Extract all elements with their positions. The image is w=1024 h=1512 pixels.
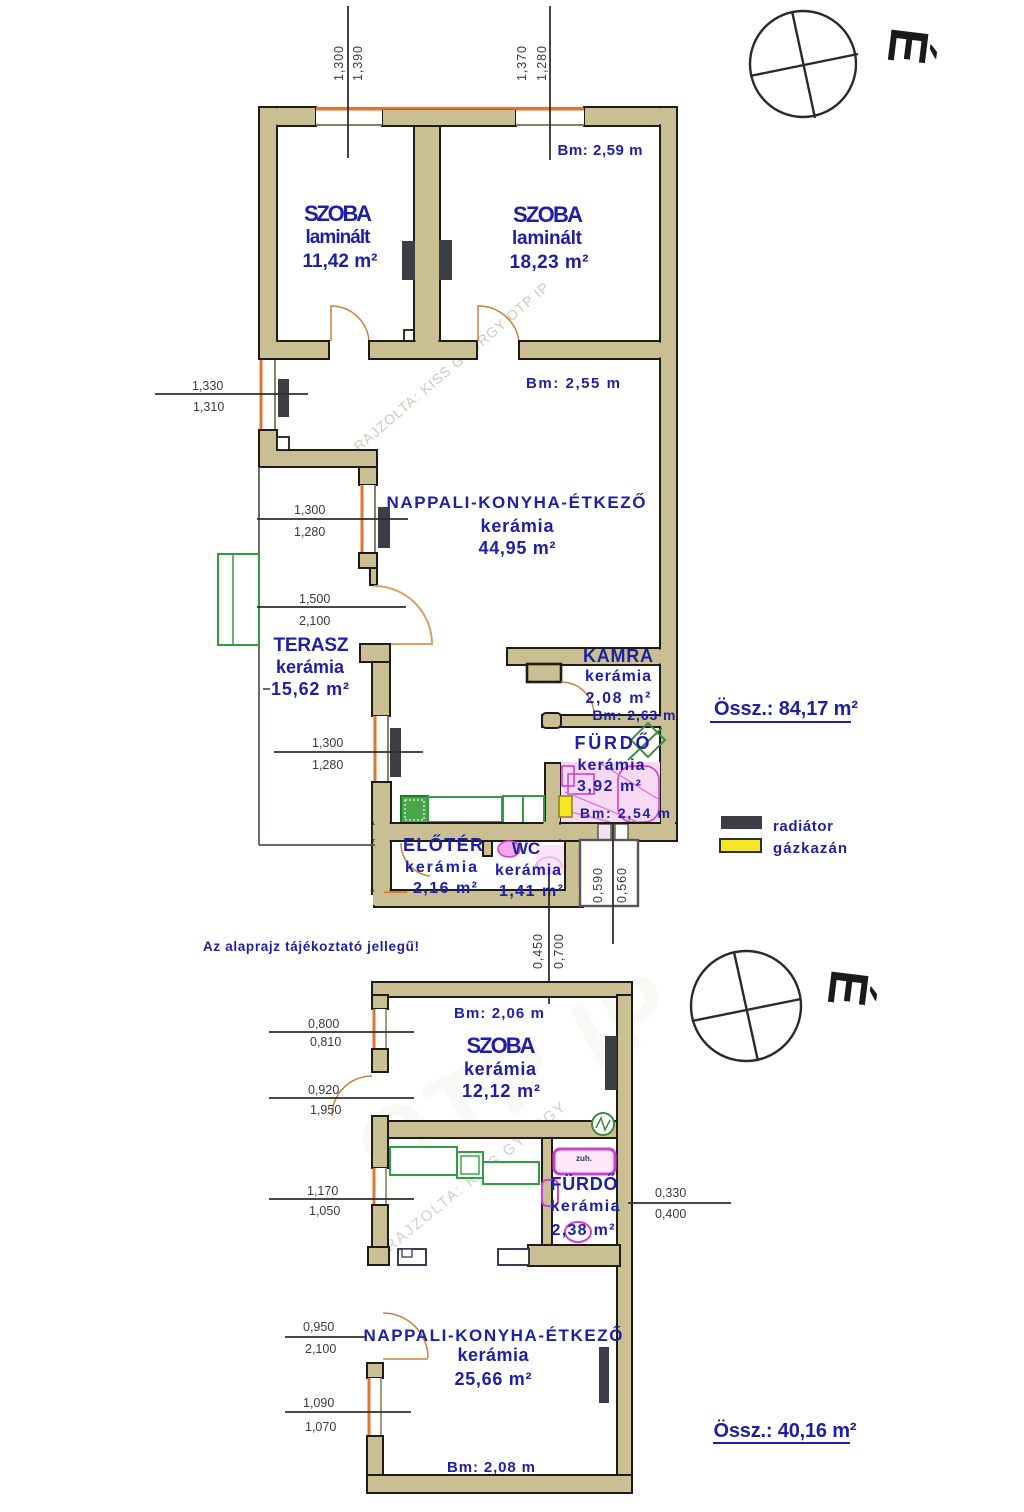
svg-text:WC: WC bbox=[512, 839, 540, 858]
wall vertical west of ELOTER lower bbox=[372, 782, 391, 894]
wall block below window W4 bbox=[359, 553, 377, 568]
svg-text:zuh.: zuh. bbox=[576, 1154, 592, 1163]
window W3 left wall bbox=[260, 358, 276, 430]
wall block left 3 bbox=[367, 1363, 383, 1378]
step notch detail bbox=[277, 437, 289, 450]
svg-text:0,330: 0,330 bbox=[655, 1186, 686, 1200]
wall divider SZOBA/kitchen bottom plan bbox=[388, 1121, 619, 1138]
svg-text:kerámia: kerámia bbox=[276, 657, 345, 677]
svg-text:11,42 m²: 11,42 m² bbox=[303, 251, 378, 272]
door jamb block bottom plan bbox=[368, 1247, 389, 1265]
door D7 arc into NAPPALI bbox=[383, 1313, 428, 1359]
compass bottom circle bbox=[691, 951, 801, 1061]
wall bottom-plan left upper block bbox=[372, 995, 388, 1009]
wall FURDO2 west bbox=[542, 1138, 552, 1266]
svg-text:1,300: 1,300 bbox=[312, 736, 343, 750]
kitchen counter long bbox=[428, 797, 502, 822]
radiator R2 right of middle wall bbox=[439, 240, 452, 280]
wall horizontal below SZOBA rooms segment C bbox=[519, 341, 660, 359]
svg-text:12,12 m²: 12,12 m² bbox=[462, 1081, 540, 1101]
wall WC east bbox=[565, 841, 580, 907]
radiator R5 bottom plan upper bbox=[605, 1036, 617, 1090]
dim hline 0330/0400 bbox=[628, 1202, 731, 1204]
radiator R6 bottom plan lower bbox=[599, 1347, 609, 1403]
svg-text:3,92 m²: 3,92 m² bbox=[577, 778, 641, 795]
svg-text:laminált: laminált bbox=[512, 228, 583, 249]
window W2 top wall bbox=[516, 108, 584, 125]
svg-text:Össz.: 40,16 m²: Össz.: 40,16 m² bbox=[714, 1419, 857, 1442]
svg-text:0,590: 0,590 bbox=[591, 868, 605, 903]
wall horizontal below SZOBA rooms segment B bbox=[369, 341, 477, 359]
wall FURDO bottom band bbox=[560, 823, 677, 841]
window W4 west wall of living room bbox=[360, 485, 376, 553]
pink patch WC bbox=[536, 845, 564, 875]
wall bottom-plan right bbox=[617, 995, 632, 1475]
svg-text:SZOBA: SZOBA bbox=[467, 1033, 536, 1058]
ventilation diamond FURDO bbox=[631, 723, 665, 757]
window W8 left wall long bbox=[368, 1378, 382, 1436]
svg-text:1,050: 1,050 bbox=[309, 1204, 340, 1218]
wall WC divider bbox=[483, 841, 492, 856]
svg-text:kerámia: kerámia bbox=[481, 516, 555, 536]
svg-text:1,280: 1,280 bbox=[535, 46, 549, 81]
svg-text:É: É bbox=[816, 967, 880, 1010]
shaft box bbox=[580, 840, 638, 906]
svg-text:kerámia: kerámia bbox=[578, 757, 645, 774]
dim hline 0920/1950 bbox=[269, 1097, 414, 1099]
svg-text:kerámia: kerámia bbox=[495, 862, 561, 879]
svg-text:1,070: 1,070 bbox=[305, 1420, 336, 1434]
svg-text:Össz.: 84,17 m²: Össz.: 84,17 m² bbox=[714, 697, 858, 720]
svg-text:0,800: 0,800 bbox=[308, 1017, 339, 1031]
kitchen sink unit green bbox=[401, 796, 428, 824]
bathtub magenta bbox=[618, 766, 659, 822]
dim vline shaft right bbox=[612, 824, 614, 944]
svg-text:0,950: 0,950 bbox=[303, 1320, 334, 1334]
wall bottom outer of top plan bbox=[374, 890, 583, 907]
wall horizontal below SZOBA rooms segment A bbox=[259, 341, 329, 359]
svg-text:Az alaprajz tájékoztató jelleg: Az alaprajz tájékoztató jellegű! bbox=[203, 939, 419, 954]
radiator R7 at left wall window bbox=[278, 379, 289, 417]
wall block left bbox=[372, 1049, 388, 1072]
dim hline 0800/0810 bbox=[269, 1031, 414, 1033]
wall left outer upper bbox=[259, 107, 277, 358]
svg-text:15,62 m²: 15,62 m² bbox=[271, 679, 349, 699]
shaft gap 1 in FURDO bottom bbox=[598, 824, 611, 841]
radiator R4 west wall lower bbox=[390, 728, 401, 777]
svg-text:Bm: 2,63 m: Bm: 2,63 m bbox=[593, 707, 676, 723]
window W7 left wall bbox=[373, 1168, 387, 1205]
furniture box 2 bbox=[498, 1249, 529, 1265]
svg-text:0,450: 0,450 bbox=[531, 934, 545, 969]
svg-text:1,950: 1,950 bbox=[310, 1103, 341, 1117]
washing machine magenta bbox=[568, 774, 594, 794]
svg-text:SZOBA: SZOBA bbox=[304, 201, 372, 226]
wall top outer middle segment bbox=[382, 109, 516, 126]
svg-text:1,310: 1,310 bbox=[193, 400, 224, 414]
wall FURDO2 bottom bbox=[528, 1245, 620, 1266]
kitchen unit two-door bbox=[503, 796, 544, 824]
terrace steps green rect bbox=[218, 554, 259, 645]
window head orange line across top wall bbox=[316, 107, 584, 110]
svg-text:1,090: 1,090 bbox=[303, 1396, 334, 1410]
dim hline 1500/2100 bbox=[257, 606, 406, 608]
svg-text:gázkazán: gázkazán bbox=[773, 840, 847, 857]
wall notch detail near middle wall bbox=[404, 330, 417, 341]
furniture box 1 bbox=[398, 1249, 426, 1265]
door D8 ELOTER arc bbox=[401, 843, 430, 876]
wall top outer left segment bbox=[259, 107, 316, 126]
svg-text:kerámia: kerámia bbox=[464, 1059, 537, 1079]
door orange mark bottom wall bbox=[384, 891, 407, 893]
svg-text:radiátor: radiátor bbox=[773, 818, 833, 835]
door post entrance bbox=[370, 568, 377, 585]
door D4 KAMRA arc bbox=[561, 682, 594, 714]
svg-text:2,08 m²: 2,08 m² bbox=[586, 690, 651, 707]
svg-text:kerámia: kerámia bbox=[585, 668, 651, 685]
svg-text:TERASZ: TERASZ bbox=[274, 635, 349, 656]
svg-text:FÜRDŐ: FÜRDŐ bbox=[551, 1173, 618, 1194]
dim hline 0950/2100 bbox=[285, 1336, 367, 1338]
svg-text:Bm: 2,06 m: Bm: 2,06 m bbox=[454, 1005, 544, 1022]
svg-text:0,700: 0,700 bbox=[552, 934, 566, 969]
wall block left 2 bbox=[372, 1205, 388, 1247]
wall right outer bbox=[660, 107, 677, 841]
door jamb KAMRA bbox=[527, 664, 561, 682]
svg-text:25,66 m²: 25,66 m² bbox=[455, 1369, 532, 1389]
wall vertical piece below stepped band bbox=[359, 467, 377, 485]
svg-text:2,16 m²: 2,16 m² bbox=[413, 880, 477, 897]
wall left outer lower block bbox=[259, 430, 277, 452]
svg-text:1,41 m²: 1,41 m² bbox=[499, 883, 563, 900]
wall FURDO west bbox=[545, 763, 561, 824]
svg-text:0,400: 0,400 bbox=[655, 1207, 686, 1221]
svg-text:Bm: 2,08 m: Bm: 2,08 m bbox=[447, 1459, 535, 1476]
sliding door piece on divider bbox=[542, 713, 561, 728]
gazkazan yellow boiler bbox=[559, 796, 572, 817]
dim vline window1 bbox=[347, 6, 349, 158]
vent green diagonal bbox=[628, 728, 662, 760]
shaft gap 2 in FURDO bottom bbox=[615, 824, 628, 841]
wall joint patches bbox=[260, 108, 675, 1479]
wall left below door bbox=[372, 1116, 388, 1168]
svg-text:2,100: 2,100 bbox=[305, 1342, 336, 1356]
window W1 top wall bbox=[316, 108, 382, 125]
door D3 entrance arc bbox=[374, 586, 432, 644]
washbasin magenta bottom plan bbox=[542, 1180, 558, 1206]
wc magenta bottom plan bbox=[565, 1222, 591, 1242]
svg-text:2,38 m²: 2,38 m² bbox=[552, 1222, 615, 1239]
wc toilet magenta bbox=[498, 841, 520, 857]
dim hline 1170/1050 bbox=[269, 1198, 414, 1200]
wall stepped band west of living room bbox=[259, 450, 377, 467]
svg-text:44,95 m²: 44,95 m² bbox=[479, 538, 556, 558]
svg-text:Bm: 2,55 m: Bm: 2,55 m bbox=[526, 375, 620, 392]
dim hline 1300/1280 upper bbox=[257, 518, 408, 520]
wall block L below entrance door bbox=[360, 644, 390, 662]
door gap bottom wall bbox=[538, 892, 560, 905]
svg-text:0,560: 0,560 bbox=[615, 868, 629, 903]
washbasin magenta bbox=[562, 766, 574, 786]
svg-text:NAPPALI-KONYHA-ÉTKEZŐ: NAPPALI-KONYHA-ÉTKEZŐ bbox=[364, 1326, 623, 1345]
svg-text:1,390: 1,390 bbox=[351, 46, 365, 81]
bath detail lines magenta bbox=[563, 763, 658, 823]
ventilation circle symbol bbox=[592, 1113, 614, 1135]
dim hline 1090/1070 bbox=[285, 1411, 411, 1413]
wall kitchen bottom band bbox=[374, 823, 560, 841]
radiator R1 left of middle wall bbox=[402, 241, 415, 280]
wall bottom-plan bottom bbox=[367, 1475, 632, 1493]
FURDO pink floor bbox=[561, 762, 660, 823]
door D2 SZOBA2 arc bbox=[478, 306, 519, 341]
svg-text:É: É bbox=[876, 25, 940, 68]
svg-text:0,920: 0,920 bbox=[308, 1083, 339, 1097]
svg-text:1,280: 1,280 bbox=[294, 525, 325, 539]
svg-text:2,100: 2,100 bbox=[299, 614, 330, 628]
compass top circle bbox=[750, 11, 856, 117]
wc basin magenta bbox=[536, 857, 562, 868]
wall divider KAMRA-FURDO bbox=[542, 715, 660, 727]
svg-text:0,810: 0,810 bbox=[310, 1035, 341, 1049]
radiator R3 living room west bbox=[378, 507, 390, 548]
dim hline 1330/1310 bbox=[155, 393, 308, 395]
svg-text:1,330: 1,330 bbox=[192, 379, 223, 393]
svg-text:18,23 m²: 18,23 m² bbox=[510, 252, 589, 273]
svg-text:NAPPALI-KONYHA-ÉTKEZŐ: NAPPALI-KONYHA-ÉTKEZŐ bbox=[387, 493, 646, 512]
svg-text:1,370: 1,370 bbox=[515, 46, 529, 81]
svg-text:1,280: 1,280 bbox=[312, 758, 343, 772]
wall KAMRA top bbox=[507, 648, 660, 665]
svg-text:SZOBA: SZOBA bbox=[513, 202, 583, 227]
dim vline 0450/0700 bbox=[548, 875, 550, 1004]
dim hline 1300/1280 lower bbox=[274, 751, 423, 753]
svg-text:kerámia: kerámia bbox=[458, 1345, 530, 1365]
svg-text:Bm: 2,59 m: Bm: 2,59 m bbox=[558, 142, 643, 159]
kitchen counter bottom plan long bbox=[390, 1147, 457, 1175]
wall vertical west of ELOTER upper bbox=[372, 662, 390, 716]
wall top outer right segment bbox=[584, 107, 677, 126]
svg-text:KAMRA: KAMRA bbox=[583, 646, 653, 666]
shower zuh magenta bbox=[554, 1149, 615, 1174]
legend radiator swatch bbox=[721, 816, 762, 829]
kitchen box small green bbox=[457, 1152, 483, 1178]
window W5 west wall lower bbox=[373, 716, 389, 782]
wall middle vertical between SZOBA rooms bbox=[414, 126, 440, 342]
legend gazkazan swatch bbox=[720, 839, 761, 852]
terrace left edge line bbox=[258, 467, 260, 845]
svg-text:1,170: 1,170 bbox=[307, 1184, 338, 1198]
door D6 arc swings outside bbox=[332, 1076, 372, 1116]
svg-text:1,300: 1,300 bbox=[332, 46, 346, 81]
kitchen counter white bbox=[483, 1162, 539, 1184]
wall bottom-plan top bbox=[372, 982, 632, 997]
window W6 left wall bottom plan bbox=[373, 1009, 387, 1049]
terrace bottom edge line bbox=[259, 844, 375, 846]
svg-text:1,500: 1,500 bbox=[299, 592, 330, 606]
dim vline window2 bbox=[549, 6, 551, 160]
door D1 SZOBA1 arc bbox=[331, 306, 369, 341]
wall left bottom block bbox=[367, 1436, 383, 1493]
svg-text:1,300: 1,300 bbox=[294, 503, 325, 517]
svg-text:laminált: laminált bbox=[306, 227, 372, 248]
